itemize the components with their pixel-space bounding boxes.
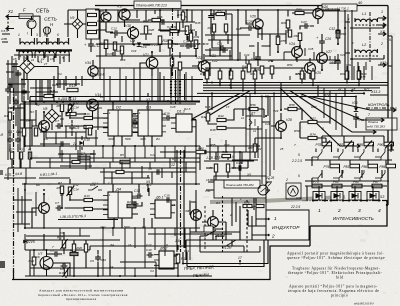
resistor Р83 (350, 164, 360, 168)
node induktor t1 (267, 218, 269, 220)
wire amp rail y56b (205, 55, 232, 57)
indicator box frame (286, 183, 301, 199)
svg-text:V3: V3 (19, 148, 23, 152)
wire intensity panel enclosure (310, 201, 387, 246)
wire left long v (8, 152, 20, 180)
node extra44 (195, 183, 197, 185)
wire secondary leads (19, 53, 69, 62)
lamp SET (27, 19, 36, 28)
svg-text:С14: С14 (73, 106, 79, 110)
resistor R1 (8, 112, 11, 120)
wire channel2 tr leads (32, 194, 44, 228)
wire r73 mesh (300, 110, 330, 146)
relay contact channel1 K2.1 (88, 104, 102, 108)
resistor channel2 R12 trimmer (68, 187, 71, 195)
node bus5 (346, 82, 348, 84)
svg-text:С28: С28 (236, 161, 242, 165)
svg-text:Р79: Р79 (324, 165, 330, 169)
svg-text:1: 1 (318, 208, 321, 214)
wire p1 v (46, 126, 96, 150)
node bus3 (301, 82, 303, 84)
node extra53 (219, 81, 221, 83)
svg-text:С11: С11 (150, 153, 156, 157)
svg-text:Р89: Р89 (380, 165, 386, 169)
wire channel2 left drop (24, 184, 26, 228)
switch element row1 Q4 (375, 149, 389, 160)
svg-text:5: 5 (298, 153, 300, 157)
svg-text:Р87: Р87 (373, 180, 379, 184)
wire v34 leads (92, 60, 94, 80)
svg-text:Аппарат для низкочастотной: Аппарат для низкочастотной магнитотерапи… (39, 289, 124, 293)
svg-text:17: 17 (252, 205, 256, 209)
node extra30 (24, 183, 26, 185)
node extra10 (151, 51, 153, 53)
board label plate mA6.730.203 (322, 4, 357, 11)
wire bus A6 (30, 96, 356, 98)
wire left mid h2 (20, 110, 36, 136)
transistor V27 (317, 53, 328, 64)
svg-text:22: 22 (337, 87, 342, 91)
wire bus drops top (210, 62, 305, 80)
svg-text:V26: V26 (322, 5, 328, 9)
node extra33 (102, 227, 104, 229)
node extra8 (123, 9, 125, 11)
wire fan 3 (290, 91, 368, 132)
resistor R19 (88, 128, 91, 135)
svg-text:Tragbarer Apparat für Niede: Tragbarer Apparat für Niederfrequenz-Mag… (292, 267, 381, 271)
svg-text:16: 16 (128, 243, 132, 247)
svg-text:С2: С2 (58, 72, 62, 76)
svg-text:СЕТЬ: СЕТЬ (36, 9, 49, 15)
svg-text:С19: С19 (164, 112, 170, 116)
svg-text:Д4: Д4 (115, 187, 122, 192)
node ind2 (265, 234, 267, 236)
wire r15 underline (57, 101, 80, 103)
wire c32 net (337, 24, 339, 70)
svg-text:2: 2 (380, 42, 383, 46)
node s3bus6 (366, 199, 368, 201)
wire mode dashed 2 (246, 200, 248, 252)
resistor R21b (84, 244, 87, 252)
connector box INDUKTOR (266, 210, 309, 240)
svg-text:D3: D3 (146, 105, 152, 110)
diode V19 (137, 42, 142, 46)
wire v31 (355, 97, 357, 129)
svg-text:С19: С19 (164, 194, 170, 198)
resistor R65 (336, 30, 340, 38)
node j0 (24, 101, 26, 103)
svg-text:С17: С17 (146, 243, 152, 247)
svg-text:R53: R53 (296, 72, 302, 76)
node extra25 (61, 125, 63, 127)
wire right col verticals (352, 10, 364, 80)
svg-text:Р80: Р80 (333, 180, 339, 184)
wire r36 col (183, 10, 191, 48)
node j1 (43, 101, 45, 103)
wire channel2 out mesh (132, 198, 196, 228)
capacitor C30 (353, 115, 359, 122)
wire x11 arrow (378, 32, 386, 36)
wire p2 h (206, 146, 260, 168)
resistor R60 (286, 20, 290, 28)
wire right frame (387, 6, 389, 206)
svg-text:V8: V8 (43, 107, 47, 111)
svg-text:6: 6 (44, 33, 46, 37)
capacitor C1 (7, 137, 13, 144)
svg-text:R24: R24 (97, 19, 103, 23)
svg-text:R66: R66 (222, 150, 228, 154)
wire channel1 left drop (24, 102, 26, 146)
resistor R47b (206, 113, 210, 121)
node extra43 (177, 275, 179, 277)
wire bottom rail drops (135, 262, 156, 276)
svg-text:R1: R1 (4, 114, 8, 118)
wire ch2 to frame (103, 228, 190, 276)
svg-text:R26: R26 (120, 58, 126, 62)
svg-text:1: 1 (18, 33, 20, 37)
wire under transformer rail (14, 54, 70, 56)
svg-text:30П: 30П (185, 209, 191, 213)
wire channel2 c18 link (127, 184, 142, 206)
svg-text:R8: R8 (60, 193, 64, 197)
svg-text:R54: R54 (287, 63, 293, 67)
svg-text:V25: V25 (315, 71, 321, 75)
node j3 (112, 101, 114, 103)
svg-text:V10: V10 (84, 138, 90, 142)
trimmer resistor Р90 (384, 142, 394, 146)
svg-text:3: 3 (36, 33, 38, 37)
node extra19 (321, 69, 323, 71)
svg-text:R12: R12 (73, 101, 79, 105)
resistor Р89 (386, 164, 396, 168)
wire amp rail y60 (205, 59, 340, 61)
svg-text:V29: V29 (273, 109, 279, 113)
svg-text:R62: R62 (294, 34, 300, 38)
wire L2 dash core (355, 55, 378, 57)
svg-text:R43: R43 (217, 9, 223, 13)
wire mb v (104, 162, 186, 184)
resistor R56 (249, 107, 258, 110)
node extra38 (73, 275, 75, 277)
wire r1r2 (10, 120, 24, 152)
wire bottom rails mid (30, 262, 178, 268)
wire res row3 drops (347, 66, 359, 85)
wire res row drops (207, 68, 255, 93)
svg-text:К1: К1 (28, 148, 32, 152)
svg-text:R8: R8 (57, 104, 61, 108)
wire rowB rail (305, 159, 381, 161)
transistor V21 (146, 57, 158, 69)
transistor V7 (40, 257, 53, 270)
node extra9 (132, 26, 134, 28)
capacitor C19b (147, 252, 154, 258)
wire lf h (58, 154, 96, 166)
wire lf v (62, 150, 94, 170)
wire reg down (90, 39, 92, 52)
wire right chain x370 (369, 12, 371, 62)
wire c13 (110, 32, 127, 34)
voltage regulator box A1 (86, 9, 99, 39)
wire bank verticals (312, 136, 391, 186)
wire amp mesh left (106, 9, 196, 56)
transistor V14 (87, 99, 99, 111)
wire ind leads (252, 219, 266, 235)
capacitor C15 (160, 19, 167, 25)
resistor R59 (295, 11, 304, 14)
svg-text:С8: С8 (50, 249, 54, 253)
node extra3 (56, 101, 58, 103)
svg-text:V32: V32 (296, 196, 302, 200)
svg-text:Aparato portátil “Poljus-101: Aparato portátil “Poljus-101” para la ma… (289, 284, 378, 289)
svg-text:V20: V20 (250, 15, 256, 19)
capacitor C24 (255, 55, 261, 62)
svg-text:R60: R60 (281, 21, 287, 25)
resistor Р86 (368, 164, 378, 168)
resistor R22 (88, 22, 97, 25)
selector switch S3 section 4 (367, 192, 379, 201)
svg-text:R2: R2 (18, 130, 22, 134)
svg-text:С14: С14 (73, 188, 79, 192)
svg-text:С5: С5 (26, 119, 30, 123)
wire bottom frame left (12, 246, 310, 280)
wire chain x172 (172, 8, 174, 78)
board label plate mA6.730.213 (134, 1, 181, 9)
node s3bus1 (324, 199, 326, 201)
transistor V18 (127, 27, 138, 38)
svg-text:С22: С22 (212, 59, 218, 63)
wire r57 (255, 138, 281, 158)
node j10 (237, 9, 239, 11)
svg-text:bild: bild (336, 275, 343, 279)
relay K2 contact (10, 152, 13, 159)
resistor E7 (78, 156, 90, 160)
paper grain filter (0, 0, 1, 1)
node extra18 (299, 45, 301, 47)
svg-text:С15: С15 (167, 25, 173, 29)
wire fan 5 (190, 93, 240, 120)
bridge rectifier V8 (45, 109, 59, 123)
transistor V17 (119, 9, 130, 20)
wire channel2 top rail (22, 183, 200, 185)
svg-text:R38: R38 (195, 21, 201, 25)
switch element row2 Q5 (312, 170, 326, 181)
node extra32 (61, 207, 63, 209)
wire channel1 top rail (22, 101, 200, 103)
svg-text:С10: С10 (101, 258, 107, 262)
optocoupler D7 (246, 116, 262, 129)
wire bank top feed (322, 135, 384, 137)
wire bank reinf (316, 149, 382, 179)
svg-text:Р82: Р82 (338, 143, 344, 147)
node j2 (69, 96, 71, 98)
IC channel2 D1.3 (150, 200, 175, 218)
svg-text:Р86: Р86 (362, 165, 368, 169)
inductor L1 (355, 19, 377, 22)
zener diode V5b (23, 239, 27, 243)
transformer T1 primary winding b (37, 42, 47, 44)
capacitor C8 (61, 263, 68, 269)
wire channel2 ic drops (113, 184, 152, 228)
wire mb h (100, 172, 196, 178)
node extra47 (265, 115, 267, 117)
bridge rectifier V1 (20, 59, 35, 74)
node extra7 (105, 9, 107, 11)
node extra55 (230, 87, 232, 89)
wire trio v1 (176, 150, 178, 252)
svg-text:С13: С13 (111, 27, 117, 31)
node bus9 (273, 92, 275, 94)
wire fuse to lamp (32, 16, 41, 36)
svg-text:R73: R73 (310, 117, 316, 121)
resistor R66 (345, 71, 349, 79)
node j9 (211, 82, 213, 84)
wire amp fill h (96, 20, 178, 56)
wire ch1 top drops (104, 68, 192, 102)
svg-text:R8: R8 (57, 186, 61, 190)
node extra5 (69, 103, 71, 105)
svg-text:R29: R29 (143, 19, 149, 23)
svg-text:R66: R66 (340, 72, 346, 76)
node s3bus7 (378, 199, 380, 201)
svg-text:V31: V31 (352, 101, 358, 105)
svg-text:Плата мА6.730.213: Плата мА6.730.213 (136, 4, 167, 8)
wire conn stub 2 (376, 118, 384, 122)
node j4 (147, 101, 149, 103)
wire center bundle (258, 93, 274, 210)
svg-text:С7: С7 (55, 201, 59, 205)
svg-text:Р11: Р11 (184, 249, 189, 253)
wire reg mesh (52, 104, 98, 130)
wire v7 extra2 (46, 232, 78, 278)
node j20 (167, 100, 169, 102)
resistor channel2 R8 (60, 186, 63, 194)
svg-text:3: 3 (358, 208, 361, 214)
wire k31 underline (4, 177, 70, 179)
node s3bus0 (312, 199, 314, 201)
svg-text:R41: R41 (208, 26, 214, 30)
svg-text:R28: R28 (149, 28, 155, 32)
wire fan 4 (280, 88, 352, 146)
wire mode dashed 1 (222, 196, 224, 252)
transformer T1 secondary winding d (56, 51, 69, 53)
transistor V20b (253, 19, 263, 29)
svg-text:R77: R77 (364, 87, 370, 91)
node j13 (337, 9, 339, 11)
svg-text:6: 6 (298, 174, 300, 178)
resistor Р87 (372, 184, 382, 188)
wire ch1 bottom drops (60, 146, 196, 184)
resistor R37 (194, 40, 198, 49)
resistor R41 (212, 24, 215, 32)
wire r17 arrow (61, 239, 68, 249)
switch element row1 Q2 (333, 149, 347, 160)
svg-text:2: 2 (229, 213, 232, 217)
wire c2 (18, 70, 24, 86)
diode V31 (354, 107, 359, 111)
node j5 (195, 145, 197, 147)
resistor R77 (256, 204, 264, 207)
capacitor C26 (319, 39, 325, 46)
trimmer resistor Р82 (344, 142, 354, 146)
wire amp feeds (113, 50, 250, 60)
svg-text:С27: С27 (301, 20, 307, 24)
svg-text:R47: R47 (200, 72, 206, 76)
wire driver verticals (232, 198, 256, 240)
wire channel1 out mesh (132, 116, 196, 146)
wire rowF rail bottom (307, 186, 373, 201)
wire bottom cross link (90, 246, 236, 250)
switch element row1 Q3 (354, 149, 368, 160)
wire bus A4 (203, 90, 372, 92)
svg-text:5Ω0: 5Ω0 (124, 225, 130, 229)
resistor R70 (300, 71, 304, 79)
wire Р78 arrow (323, 141, 330, 149)
node extra52 (211, 92, 213, 94)
svg-text:АЗВ: АЗВ (0, 37, 7, 41)
resistor R17t (62, 240, 65, 248)
wire group underline (204, 160, 254, 162)
node j16 (329, 135, 331, 137)
svg-text:4: 4 (378, 208, 381, 214)
wire amp fill v (115, 10, 196, 60)
node bus11 (245, 96, 247, 98)
capacitor C27 (303, 23, 310, 29)
resistor R43 (216, 12, 225, 15)
relay contact channel2 K2.1 (88, 186, 102, 190)
node s3bus4 (348, 199, 350, 201)
resistor R50 (229, 71, 233, 79)
node extra27 (112, 145, 114, 147)
svg-text:17: 17 (226, 105, 230, 109)
resistor lf1 (72, 160, 80, 163)
svg-text:6.2 5В-Б: 6.2 5В-Б (92, 72, 106, 77)
node channel1 j2 (43, 145, 45, 147)
node s3bus3 (342, 199, 344, 201)
resistor R39 (189, 33, 192, 41)
svg-text:22 2.5: 22 2.5 (290, 205, 300, 209)
wire bus A2 (203, 84, 388, 86)
wire bus A5 (197, 92, 364, 94)
node intensity corner (386, 204, 388, 206)
svg-text:R58: R58 (289, 103, 295, 107)
wire bus B2 (30, 100, 200, 102)
svg-text:Д7: Д7 (250, 112, 255, 116)
svg-text:РЕЖИМ: РЕЖИМ (193, 272, 210, 278)
wire mains stub 2 (6, 27, 14, 31)
transistor channel2 input (39, 203, 50, 214)
transistor channel1 input (39, 121, 50, 132)
wire c1c3 (10, 130, 18, 152)
svg-text:quence “Poljus-101”. Schéma él: quence “Poljus-101”. Schéma électrique d… (287, 255, 385, 260)
wire conn stub 4 (352, 144, 360, 148)
resistor R49 (218, 71, 222, 79)
wire left chassis chain line (13, 88, 15, 278)
wire long link 2 (36, 161, 140, 163)
svg-text:X1: X1 (7, 9, 13, 14)
resistor channel2 R27 (127, 204, 136, 207)
capacitor C13 (113, 30, 120, 36)
node j19 (229, 84, 231, 86)
svg-text:R64: R64 (330, 61, 336, 65)
svg-text:17: 17 (238, 256, 242, 260)
wire fan 1 (310, 97, 388, 111)
svg-text:V1: V1 (38, 60, 43, 64)
node extra46 (239, 151, 241, 153)
wire channel2 x5 stub (147, 175, 149, 178)
wire right top verticals (348, 14, 372, 80)
wire ch2 bottom drops (60, 228, 175, 240)
node ind1 (265, 218, 267, 220)
